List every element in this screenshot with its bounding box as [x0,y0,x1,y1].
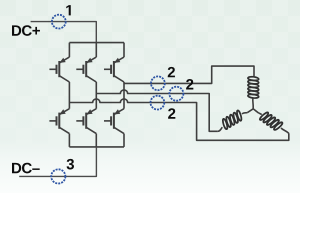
label 2 (middle) [186,79,193,89]
label 3 [67,159,74,170]
wire Q4 emitter [68,134,70,147]
wire phase node leg 2 [95,82,97,109]
wire bottom rail (DC- bus) [69,146,124,148]
label 1 [66,5,71,15]
wire Q2 collector [95,43,97,58]
wire Q3 collector [123,43,125,58]
star point node [248,109,259,113]
IGBT Q3 (upper phase 3) [104,57,124,82]
wire L1 to star point [252,99,254,109]
wire Q6 emitter [123,134,125,147]
wire L2 to star point [242,112,248,114]
IGBT Q1 (upper phase 1) [49,57,69,82]
wire lead-in L2 (left) [218,127,223,131]
label 2 (top) [168,67,175,77]
wire phase 2 output (leg 2 to left winding, with crossover hop) [96,90,217,131]
IGBT Q2 (upper phase 2) [76,57,96,82]
inductor winding L1 (top) [248,76,259,98]
terminal circle 2 (bottom phase) [151,96,165,110]
wire phase node leg 3 [123,82,125,109]
terminal circle 2 (top phase) [151,76,165,90]
wire star point to L3 [258,113,261,115]
inductor winding L2 (left) [222,110,242,130]
IGBT Q6 (lower phase 3) [104,109,124,134]
wire phase node leg 1 [68,82,70,109]
label DC- [12,163,40,174]
label 2 (bottom) [168,108,175,118]
inductor winding L3 (right) [259,111,283,130]
wire phase 3 output (leg 3 to top winding) [124,66,254,83]
terminal circle 2 (middle phase) [169,87,183,101]
wire L3 lead-out [281,128,289,133]
IGBT Q4 (lower phase 1) [49,109,69,134]
IGBT Q5 (lower phase 2) [76,109,96,134]
terminal circle 1 [52,15,66,29]
wire DC- feed [19,147,96,177]
wire Q5 emitter [95,134,97,147]
terminal circle 3 [51,169,65,183]
wire phase 1 output (leg 1 to right winding, with crossover hops) [69,99,288,140]
wire Q1 collector [68,43,70,58]
label DC+ [12,25,40,36]
wire top rail (DC+ bus) [69,42,124,44]
wire DC+ feed [31,22,97,43]
